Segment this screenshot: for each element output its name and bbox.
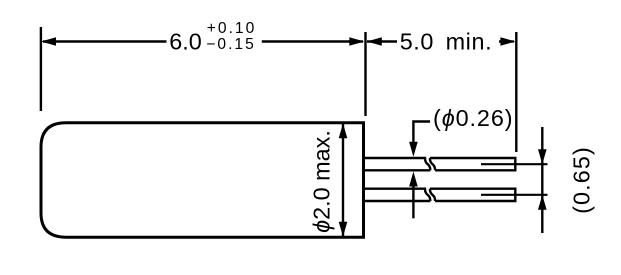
svg-text:+0.10: +0.10	[207, 20, 256, 37]
dimension line 5.0 left shaft	[367, 40, 397, 42]
package body outline	[41, 123, 364, 237]
svg-text:6.0: 6.0	[169, 29, 202, 55]
leader line phi 0.26	[413, 122, 430, 151]
lead 1 (top) left segment	[364, 158, 430, 170]
dimension line 0.65 vertical	[541, 127, 543, 233]
lead 2 centerline	[481, 194, 548, 196]
arrowhead 5.0 right	[500, 37, 515, 46]
svg-text:ϕ2.0 max.: ϕ2.0 max.	[308, 130, 334, 233]
extension line left (body left edge)	[40, 27, 42, 111]
dimension line phi 2.0 vertical	[342, 124, 344, 236]
svg-text:5.0 min.: 5.0 min.	[400, 29, 493, 55]
dimension line 6.0 left segment	[43, 40, 167, 42]
arrow shaft phi 0.26 up	[412, 180, 414, 218]
dimension line 6.0 right segment	[262, 40, 363, 42]
arrowhead phi 2.0 top	[339, 123, 348, 138]
extension line middle (body right edge)	[364, 32, 366, 116]
lead 1 centerline	[481, 163, 548, 165]
arrowhead 0.65 down	[538, 149, 547, 164]
svg-text:(0.65): (0.65)	[568, 146, 594, 214]
arrowhead phi 0.26 down	[409, 142, 418, 157]
arrowhead 5.0 left	[367, 37, 382, 46]
arrowhead 0.65 up	[538, 195, 547, 210]
dimension line 5.0 right shaft	[499, 40, 514, 42]
arrowhead phi 0.26 up	[409, 172, 418, 187]
arrowhead 6.0 right	[349, 37, 364, 46]
extension line right (lead end)	[515, 32, 517, 152]
svg-text:−0.15: −0.15	[206, 36, 255, 53]
svg-text:(ϕ0.26): (ϕ0.26)	[433, 105, 513, 131]
lead 2 (bottom) left segment	[364, 189, 430, 201]
lead 1 (top) right segment	[430, 158, 515, 170]
arrowhead 6.0 left	[41, 37, 56, 46]
arrowhead phi 2.0 bottom	[339, 222, 348, 237]
lead 2 (bottom) right segment	[430, 189, 515, 201]
